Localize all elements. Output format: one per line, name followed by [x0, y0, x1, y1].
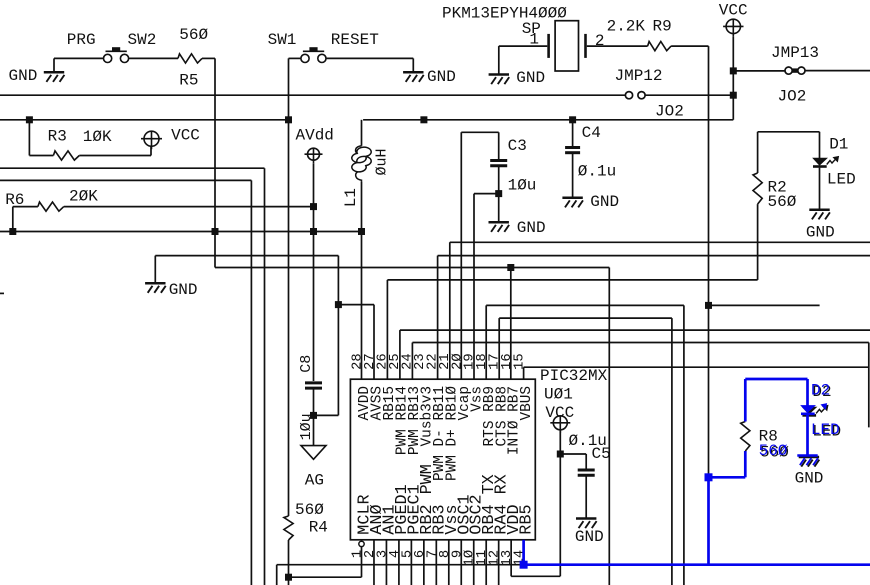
wire pin15 line	[524, 366, 869, 368]
wire R8 bottom lead	[744, 451, 747, 477]
wire pin6 stub	[423, 540, 425, 585]
wire pin17 vertical	[498, 318, 500, 379]
wire blue vertical	[707, 477, 710, 564]
wire pin8 stub	[448, 540, 450, 585]
svg-text:GND: GND	[9, 67, 38, 85]
wire R8 top lead	[744, 379, 747, 422]
svg-text:GND: GND	[516, 69, 545, 87]
IC U01 PIC32MX body	[350, 379, 535, 540]
wire AVSS vertical	[337, 256, 339, 416]
resistor R2	[753, 173, 762, 204]
wire pin26 line	[387, 279, 757, 281]
wire D2 anode	[806, 379, 809, 406]
wire pin21 line	[450, 241, 870, 243]
svg-text:2.2K: 2.2K	[607, 18, 646, 36]
wire C3 drop	[498, 132, 500, 160]
wire pin22 vertical	[437, 256, 439, 380]
wire blue to R8	[709, 476, 746, 479]
power VCC R3	[141, 131, 162, 149]
ground AVSS	[145, 283, 166, 293]
wire VCC drop	[732, 37, 734, 120]
svg-text:Ø.1u: Ø.1u	[578, 163, 616, 181]
svg-text:C3: C3	[508, 137, 527, 155]
svg-text:2ØK: 2ØK	[69, 187, 98, 205]
wire pin3 stub	[385, 540, 387, 585]
wire net684 vertical	[683, 305, 685, 585]
svg-text:D1: D1	[829, 136, 848, 154]
wire pin1 stub	[361, 547, 363, 578]
wire pin17 line	[499, 317, 672, 319]
svg-text:PIC32MX: PIC32MX	[540, 367, 608, 385]
wire C5 drop	[585, 454, 587, 470]
wire pin10 stub	[473, 540, 475, 585]
wire pin5 stub	[410, 540, 412, 585]
ground SW1	[403, 72, 424, 82]
svg-text:1Øu: 1Øu	[508, 176, 537, 194]
wire H2	[0, 231, 362, 233]
ground D2	[797, 456, 818, 466]
wire pin15 vertical	[523, 367, 525, 379]
wire pin22 line	[438, 255, 870, 257]
wire SP pin2 to R9	[587, 45, 648, 47]
wire R2 top lead	[757, 132, 759, 173]
ground D1	[809, 210, 830, 220]
svg-text:D2: D2	[811, 382, 830, 400]
wire pin11 stub	[485, 540, 487, 585]
capacitor C3	[490, 161, 507, 166]
svg-text:56Ø: 56Ø	[179, 26, 208, 44]
wire pin24 line	[412, 342, 868, 344]
wire R4 bottom	[288, 540, 290, 585]
wire pin9 stub	[460, 540, 462, 585]
svg-text:UØ1: UØ1	[544, 386, 573, 404]
junction VCC/pin23	[420, 116, 427, 123]
svg-text:VCC: VCC	[719, 2, 748, 20]
svg-text:GND: GND	[575, 528, 604, 546]
svg-text:PRG: PRG	[67, 31, 96, 49]
wire C3 bottom	[498, 166, 500, 222]
svg-text:SW1: SW1	[268, 31, 297, 49]
wire pin2 stub	[373, 540, 375, 585]
svg-text:1ØK: 1ØK	[83, 128, 112, 146]
piezo SP body	[549, 21, 586, 71]
wire R6 left vert	[12, 207, 14, 232]
wire D1 anode	[819, 132, 821, 159]
junction VCC/C4	[569, 116, 576, 123]
svg-text:2: 2	[595, 32, 605, 50]
resistor R6	[38, 202, 64, 211]
wire line A vertical	[264, 168, 266, 585]
wire R2-D1 top	[758, 131, 820, 133]
wire SP pin1	[499, 45, 548, 47]
wire GND drop	[53, 58, 55, 72]
power AVdd	[305, 148, 323, 163]
resistor R8	[741, 422, 750, 452]
wire AVSS to GND	[154, 256, 156, 284]
wire R2 bottom	[757, 204, 759, 280]
junction AVSS	[335, 301, 342, 308]
wire AVSS horizontal	[155, 255, 338, 257]
switch SW2	[104, 47, 129, 62]
capacitor C4	[565, 148, 580, 153]
wire R5 line	[215, 267, 609, 269]
wire R5 net vertical	[214, 58, 216, 267]
jumper JMP12	[625, 92, 645, 99]
wire AVdd vertical	[313, 163, 315, 381]
wire line A	[0, 167, 265, 169]
wire C4 bottom	[572, 153, 574, 198]
wire AVSS to C8	[314, 414, 339, 416]
wire L1 top	[361, 120, 363, 146]
wire pin24 vertical	[411, 343, 413, 380]
wire SW1 net vertical	[288, 58, 290, 516]
wire SW1 left bend	[289, 57, 301, 59]
ground top-left	[44, 72, 65, 82]
wire R8-D2 top	[745, 378, 807, 381]
wire pin27 vertical	[373, 305, 375, 380]
junction C8/AVSS	[310, 412, 317, 419]
ground D2 shadow	[799, 457, 820, 467]
junction R6/AVdd	[310, 203, 317, 210]
svg-text:VBUS: VBUS	[519, 386, 535, 421]
wire SW2 left to GND	[54, 57, 104, 59]
wire C4 top	[572, 120, 574, 148]
wire D1 cathode	[819, 168, 821, 210]
svg-text:15: 15	[513, 353, 528, 370]
junction H2/AVdd	[310, 228, 317, 235]
junction R3/MCLR	[26, 116, 33, 123]
wire to JMP13	[733, 70, 785, 72]
junction VCC/JMP12	[730, 92, 737, 99]
junction R4 bottom	[285, 574, 292, 581]
wire C3 top	[461, 131, 498, 133]
svg-text:RESET: RESET	[331, 31, 379, 49]
resistor R3	[53, 151, 79, 160]
wire pin26 vertical	[386, 280, 388, 379]
wire line B vertical	[250, 180, 252, 585]
wire pin19 vertical	[473, 194, 475, 380]
svg-text:JO2: JO2	[655, 103, 684, 121]
wire R6 to AVdd line	[64, 206, 314, 208]
wire pin19 branch	[474, 193, 499, 195]
svg-text:56Ø: 56Ø	[768, 193, 797, 211]
switch SW1	[301, 47, 326, 62]
svg-text:R5: R5	[179, 72, 198, 90]
junction VCC/JMP13	[730, 67, 737, 74]
svg-text:VCC: VCC	[171, 127, 200, 145]
svg-text:JO2: JO2	[778, 88, 807, 106]
junction H2/L1	[358, 228, 365, 235]
wire pin13 stub	[510, 540, 512, 577]
svg-text:JMP13: JMP13	[771, 44, 819, 62]
power VCC top-right	[723, 19, 743, 36]
wire RB5 stub blue	[522, 540, 525, 565]
wire SP pin1 GND drop	[498, 46, 500, 74]
wire R5 to node	[202, 57, 215, 59]
wire R9 to vertical	[671, 45, 708, 47]
power VCC U01	[550, 416, 570, 433]
wire RB5 blue right	[524, 563, 870, 566]
wire bus y95 right	[645, 94, 733, 96]
svg-text:56Ø: 56Ø	[759, 442, 788, 460]
svg-text:R3: R3	[48, 128, 67, 146]
wire C5 branch	[560, 453, 586, 455]
wire pin25 line	[400, 329, 870, 331]
wire C8 to AG	[313, 388, 315, 446]
junction R9 branch	[705, 302, 712, 309]
svg-text:PKM13EPYH4ØØØ: PKM13EPYH4ØØØ	[442, 5, 567, 23]
resistor R5	[178, 54, 202, 63]
svg-text:LED: LED	[827, 170, 856, 188]
svg-text:R9: R9	[653, 18, 672, 36]
wire AVSS to pin27	[338, 304, 374, 306]
svg-text:JMP12: JMP12	[615, 67, 663, 85]
svg-text:56Ø: 56Ø	[295, 501, 324, 519]
junction RB5 blue	[520, 561, 528, 569]
wire right edge vertical	[868, 343, 870, 428]
svg-text:L1: L1	[342, 188, 360, 207]
junction H2 left	[9, 228, 16, 235]
wire pin16 vertical	[510, 268, 512, 380]
junction H2/R5	[212, 228, 219, 235]
wire R3 lead	[29, 155, 53, 157]
svg-text:AVdd: AVdd	[296, 127, 334, 145]
wire net609 vertical	[608, 268, 610, 585]
wire SW2 to R5	[129, 57, 178, 59]
jumper JMP13	[785, 67, 805, 74]
wire VCC bus	[363, 119, 733, 121]
wire RB5 black	[277, 564, 524, 566]
svg-text:GND: GND	[427, 68, 456, 86]
svg-text:GND: GND	[806, 223, 835, 241]
ground C4	[562, 198, 583, 208]
LED D1	[813, 157, 839, 167]
wire pin18 vertical	[485, 305, 487, 379]
wire R3 to VCC	[150, 146, 152, 155]
wire D2 cathode	[806, 415, 809, 456]
svg-text:C8: C8	[298, 355, 315, 373]
wire pin18 line	[486, 304, 684, 306]
wire pin21 vertical	[449, 242, 451, 379]
wire MCLR bus	[0, 119, 289, 121]
capacitor C5	[578, 470, 595, 475]
svg-text:ØuH: ØuH	[374, 148, 391, 175]
wire pin25 vertical	[399, 330, 401, 379]
wire R9 branch	[709, 304, 820, 306]
junction blue R8	[705, 473, 713, 481]
wire left edge stub	[0, 292, 4, 294]
svg-text:C4: C4	[582, 124, 601, 142]
wire SW1 right to GND	[326, 57, 413, 59]
wire pin4 stub	[398, 540, 400, 585]
junction C3/pin19	[495, 190, 502, 197]
wire C5 bottom	[585, 475, 587, 518]
capacitor C8	[305, 383, 322, 388]
wire pin7 stub	[435, 540, 437, 585]
wire line B	[0, 179, 251, 181]
resistor R4	[284, 516, 293, 540]
svg-text:GND: GND	[795, 470, 824, 488]
wire R6 lead	[13, 206, 38, 208]
junction VCC/C5	[557, 451, 564, 458]
junction R5/pin16	[507, 264, 514, 271]
wire pin1 to R4	[289, 576, 362, 578]
wire R9 net vertical	[708, 46, 710, 477]
LED D2	[802, 405, 828, 415]
inductor L1	[352, 146, 371, 182]
resistor R9	[648, 42, 672, 51]
svg-text:C5: C5	[592, 445, 611, 463]
svg-text:LED: LED	[811, 421, 840, 439]
wire L1 bottom	[361, 182, 363, 380]
wire SW1 GND drop	[412, 58, 414, 72]
junction SW1/MCLR	[285, 116, 292, 123]
svg-text:R4: R4	[309, 519, 328, 537]
svg-text:RB5: RB5	[518, 504, 537, 534]
wire RB5 offpage vertical	[276, 565, 278, 585]
pin 1 bubble	[359, 541, 364, 546]
wire R3 right	[79, 155, 151, 157]
svg-text:GND: GND	[517, 219, 546, 237]
wire pin20 net vertical	[460, 132, 462, 379]
wire net672 vertical	[671, 318, 673, 585]
wire pin12 stub	[498, 540, 500, 585]
svg-text:GND: GND	[169, 281, 198, 299]
ground C5	[576, 519, 597, 529]
wire R3 left	[28, 120, 30, 156]
svg-text:AG: AG	[305, 472, 324, 490]
wire VDD bottom	[511, 575, 560, 577]
wire bus y95 left	[0, 94, 626, 96]
ground C3	[489, 222, 510, 232]
analog ground AG	[301, 446, 326, 460]
wire JMP13 right	[805, 70, 870, 72]
svg-text:GND: GND	[590, 193, 619, 211]
svg-text:SW2: SW2	[128, 31, 157, 49]
wire VDD vertical	[559, 430, 561, 577]
ground SP	[489, 75, 510, 85]
